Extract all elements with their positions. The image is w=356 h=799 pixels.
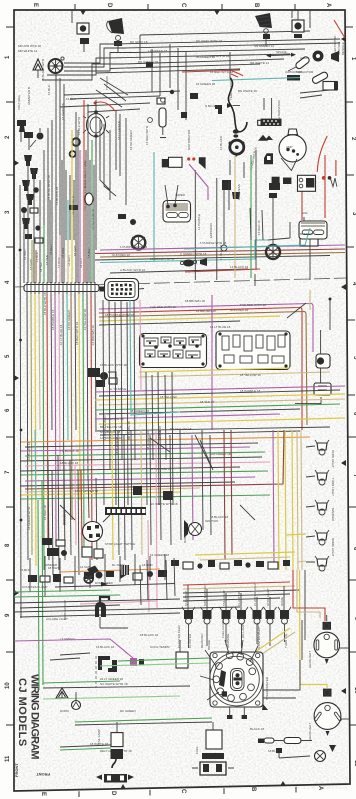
- ignition module: [323, 82, 337, 91]
- turn signal flasher box: [163, 201, 191, 223]
- svg-text:HORN: HORN: [300, 56, 309, 60]
- svg-text:3: 3: [351, 212, 356, 216]
- wire white/green lower: [60, 745, 111, 747]
- labels lower left: [46, 617, 171, 753]
- firewall dash line: [14, 278, 346, 287]
- lamp L3: [315, 500, 329, 515]
- svg-text:18 BLACK 18: 18 BLACK 18: [210, 515, 229, 519]
- svg-text:B: B: [253, 3, 259, 8]
- svg-text:FRONT: FRONT: [36, 772, 50, 777]
- svg-text:CLUSTER LIGHT: CLUSTER LIGHT: [256, 622, 260, 646]
- wire yellow under fuse: [139, 368, 290, 372]
- svg-text:10: 10: [5, 682, 11, 689]
- svg-text:HEADLIGHT: HEADLIGHT: [308, 723, 312, 740]
- white circle junction: [221, 245, 227, 251]
- wire labels tr: [229, 56, 314, 170]
- wire: [92, 136, 100, 158]
- wire purple diag: [189, 164, 208, 200]
- capsule row: [264, 738, 274, 743]
- wire red right: [317, 136, 327, 172]
- svg-text:SN GREEN 14: SN GREEN 14: [254, 44, 274, 48]
- fusible link zigzag: [330, 178, 337, 187]
- wire black h: [14, 599, 180, 608]
- svg-text:DK GRAY W/TR 18: DK GRAY W/TR 18: [196, 39, 222, 43]
- labels bottomright: [195, 651, 312, 754]
- wire dash vertical: [95, 656, 97, 688]
- svg-text:COURTESY LAMP: COURTESY LAMP: [22, 585, 48, 589]
- lamp L4: [315, 530, 329, 545]
- svg-text:CLUSTER: CLUSTER: [237, 591, 241, 606]
- tail label: [97, 729, 101, 744]
- svg-text:BN GREEN 18: BN GREEN 18: [138, 60, 158, 64]
- wire inner verticals mid-left: [103, 300, 173, 505]
- wire pink column: [156, 430, 157, 608]
- wire green pair to M: [43, 681, 120, 683]
- svg-text:BB WHITE 18: BB WHITE 18: [127, 421, 131, 440]
- svg-text:EMISSION: EMISSION: [209, 223, 213, 238]
- label speckle A: [27, 292, 162, 530]
- pcv oval: [85, 193, 93, 205]
- lamp L5: [315, 556, 329, 571]
- wire red to socket1: [293, 570, 325, 621]
- svg-text:5: 5: [352, 356, 356, 360]
- svg-text:BEAM IND: BEAM IND: [200, 633, 204, 648]
- svg-text:5: 5: [5, 354, 11, 358]
- svg-text:GM WHITE 18: GM WHITE 18: [104, 417, 124, 421]
- labels mid: [112, 193, 314, 272]
- magenta connector: [130, 658, 137, 666]
- wire: [83, 44, 85, 52]
- wire bundle above sockets: [183, 582, 290, 585]
- alternator A1: [279, 135, 306, 162]
- bulb holes: [226, 652, 233, 659]
- label speckle C: [20, 563, 153, 589]
- wire black 585: [55, 584, 175, 588]
- svg-text:TO HORN: TO HORN: [105, 76, 109, 90]
- battery BAT: [299, 221, 327, 239]
- wire green down right: [75, 718, 212, 722]
- svg-text:A: A: [317, 786, 323, 791]
- svg-text:E: E: [32, 3, 38, 7]
- svg-text:DOME LIGHT: DOME LIGHT: [331, 538, 335, 557]
- wire green h1: [14, 590, 110, 592]
- wire purple bundle1: [99, 303, 313, 352]
- harness bundle top: [115, 39, 340, 44]
- svg-text:16 LT BLUE 18: 16 LT BLUE 18: [59, 324, 63, 345]
- svg-text:16 RED W/TR 16: 16 RED W/TR 16: [210, 70, 234, 74]
- wire left column verticals: [24, 163, 40, 283]
- wiper switch box WS: [105, 279, 139, 301]
- pointer line: [103, 435, 212, 522]
- labels bundle2: [110, 387, 261, 413]
- wire tan diagonals to cluster: [262, 632, 295, 654]
- wire black bundle1: [99, 321, 240, 325]
- wire: [71, 10, 73, 23]
- wire vertical drops from bundle: [140, 35, 186, 120]
- sender cluster: [222, 180, 231, 190]
- svg-text:18 PURPLE 18: 18 PURPLE 18: [240, 389, 261, 393]
- headlight socket 1: [323, 622, 332, 630]
- wire band horizontals: [95, 427, 330, 431]
- wire cyan vertical: [153, 152, 155, 262]
- svg-text:D: D: [106, 3, 112, 8]
- svg-text:6: 6: [5, 408, 11, 412]
- svg-text:MR WHITE 14: MR WHITE 14: [18, 49, 38, 53]
- wire stubs row: [30, 554, 165, 597]
- cap ovals: [233, 129, 239, 133]
- label speckle B horizontal: [45, 325, 261, 567]
- wire purple h: [14, 639, 133, 658]
- svg-text:16 BLACK 18: 16 BLACK 18: [27, 441, 31, 460]
- vertical harness to bulkhead: [56, 74, 96, 283]
- ignition switch IGN: [83, 522, 103, 542]
- svg-text:A / PURPLE: A / PURPLE: [110, 387, 126, 391]
- arrow marker: [227, 103, 233, 108]
- svg-text:7: 7: [5, 470, 11, 474]
- svg-text:14 BLACK 18: 14 BLACK 18: [230, 265, 249, 269]
- svg-text:2: 2: [350, 137, 356, 141]
- cluster pointer lines: [200, 640, 258, 700]
- starter relay: [298, 175, 316, 191]
- wire yellow bends to lamps: [286, 534, 306, 535]
- rotated label column right: [333, 35, 345, 55]
- small box right: [300, 238, 318, 246]
- bulkhead connector BH: [24, 285, 99, 292]
- socket S7: [278, 607, 291, 624]
- bracket L2: [108, 660, 117, 672]
- starter solenoid S2: [183, 260, 194, 267]
- svg-text:VOLT REG: VOLT REG: [17, 94, 21, 110]
- wire colored drops to bulkhead: [31, 240, 33, 283]
- svg-text:18 TAN 18: 18 TAN 18: [200, 400, 214, 404]
- wire stub: [100, 617, 128, 628]
- dark component r1: [133, 486, 142, 495]
- svg-text:16 BLK: 16 BLK: [47, 85, 51, 95]
- svg-text:16 YELLOW 18: 16 YELLOW 18: [83, 309, 87, 330]
- svg-text:BLACK 18: BLACK 18: [250, 727, 264, 731]
- wire cyan horiz2: [184, 228, 310, 249]
- column connector bar: [105, 507, 146, 515]
- ignition connector cluster: [88, 368, 100, 377]
- svg-text:CLUSTER LIGHT: CLUSTER LIGHT: [253, 582, 257, 606]
- wire yellow vertical: [71, 130, 73, 283]
- wire red dm: [185, 269, 260, 272]
- svg-text:8: 8: [352, 547, 356, 551]
- wire stairs mid: [100, 120, 116, 200]
- wire tan right: [297, 570, 320, 618]
- svg-text:18 YELLOW 16: 18 YELLOW 16: [240, 373, 261, 377]
- svg-text:14 RED 18: 14 RED 18: [43, 505, 47, 520]
- svg-text:3: 3: [5, 210, 11, 214]
- dimmer bracket: [87, 566, 99, 576]
- wire black vertical r: [329, 300, 331, 330]
- headlight connector HL1: [314, 632, 340, 658]
- buzzer boxes: [82, 547, 92, 557]
- svg-text:BN WHITE 18: BN WHITE 18: [238, 89, 257, 93]
- svg-text:THE RED W/TR 18: THE RED W/TR 18: [240, 303, 266, 307]
- svg-text:GUN RED 18: GUN RED 18: [112, 253, 130, 257]
- dark component r2: [163, 491, 173, 500]
- svg-text:16 GREEN 18: 16 GREEN 18: [196, 82, 215, 86]
- svg-text:1 PURPLE W/TR 18: 1 PURPLE W/TR 18: [120, 245, 148, 249]
- svg-text:TAIL LIGHT: TAIL LIGHT: [222, 590, 226, 606]
- wire loom verticals below bulkhead: [27, 294, 28, 560]
- wire verticals topright: [266, 10, 310, 46]
- wire tail right: [268, 222, 290, 240]
- svg-text:18 BROWN 18: 18 BROWN 18: [185, 299, 205, 303]
- wire right verticals: [224, 430, 225, 560]
- svg-text:14 LT BLUE 18: 14 LT BLUE 18: [210, 325, 231, 329]
- wire teal mid: [130, 300, 180, 415]
- socket S5: [251, 607, 264, 624]
- svg-text:14 BLK RD: 14 BLK RD: [219, 244, 223, 260]
- starter parts row: [272, 177, 280, 184]
- cluster bottom stems: [230, 707, 245, 715]
- wire purple run: [100, 245, 345, 250]
- svg-text:TR BLACK 18: TR BLACK 18: [60, 449, 79, 453]
- capacitor C1: [295, 56, 311, 70]
- distributor D1: [230, 140, 244, 154]
- svg-text:18 PURPLE 18: 18 PURPLE 18: [51, 309, 55, 330]
- lamp L2: [315, 470, 329, 485]
- svg-text:COOL TEMPR: COOL TEMPR: [150, 645, 171, 649]
- fuel capsule: [159, 108, 166, 127]
- wire tan short r: [309, 290, 311, 310]
- svg-text:1 PURPLE WTR 18: 1 PURPLE WTR 18: [200, 241, 227, 245]
- svg-text:FRONT: FRONT: [14, 763, 19, 777]
- svg-text:THE RED W/TR 18: THE RED W/TR 18: [150, 305, 176, 309]
- wire green pair to cluster: [118, 658, 210, 661]
- buzzer: [80, 38, 89, 44]
- horseshoe U: [95, 602, 106, 617]
- arrow HL1: [325, 659, 329, 664]
- svg-text:18 YELLOW: 18 YELLOW: [160, 395, 177, 399]
- sender symbols mid: [130, 219, 136, 225]
- alternator connector: [261, 119, 282, 126]
- small rect pair: [258, 120, 266, 125]
- svg-text:LA GREEN 18: LA GREEN 18: [148, 49, 168, 53]
- oil sender: [37, 133, 44, 140]
- wire: [117, 40, 119, 52]
- svg-text:TURN SIG: TURN SIG: [284, 633, 288, 648]
- socket S6: [264, 607, 277, 624]
- arrow HL2: [326, 731, 330, 736]
- ignition capsule: [311, 71, 328, 84]
- svg-text:18 RED: 18 RED: [142, 563, 153, 567]
- wire verticals center: [195, 170, 217, 280]
- svg-text:OIL LAMP: OIL LAMP: [241, 624, 245, 638]
- cluster circle inner: [213, 656, 259, 702]
- socket labels: [184, 582, 284, 606]
- ignition circle D3: [266, 245, 280, 259]
- svg-text:BATTERY: BATTERY: [300, 232, 314, 236]
- warning triangle: [56, 688, 68, 698]
- svg-text:DK GRAY 18: DK GRAY 18: [130, 40, 148, 44]
- top/bottom margin separators: [75, 4, 296, 797]
- svg-text:18 LT GREEN 18: 18 LT GREEN 18: [75, 489, 98, 493]
- svg-text:DK GREEN: DK GREEN: [120, 709, 136, 713]
- svg-text:14 PURPLE: 14 PURPLE: [197, 214, 201, 230]
- svg-text:TEMPERATURE: TEMPERATURE: [229, 78, 233, 100]
- svg-text:18 DK GREEN: 18 DK GREEN: [129, 130, 133, 150]
- left column parts y150-240: [21, 155, 78, 243]
- A bracket parts: [258, 135, 273, 141]
- svg-text:7: 7: [352, 474, 356, 478]
- svg-text:8: 8: [5, 543, 11, 547]
- extra thin wires: [140, 558, 175, 605]
- svg-text:18 GREEN W/TR: 18 GREEN W/TR: [27, 506, 31, 530]
- svg-text:18 BROWN 18: 18 BROWN 18: [91, 325, 95, 345]
- wire pink mid: [140, 300, 141, 392]
- socket stems: [188, 585, 284, 610]
- instrument cluster plate: [210, 652, 263, 707]
- svg-text:14 RED 16: 14 RED 16: [257, 220, 261, 235]
- left connector stack: [42, 538, 52, 545]
- hazard flasher: [314, 383, 331, 395]
- wire black verticals right: [302, 570, 305, 660]
- svg-text:9: 9: [5, 613, 11, 617]
- wire horiz runs mid-top: [60, 91, 180, 112]
- svg-text:FUEL: FUEL: [195, 746, 199, 754]
- dark ring B: [70, 151, 76, 157]
- svg-text:B: B: [250, 787, 256, 792]
- svg-text:18 BLACK 16: 18 BLACK 16: [140, 633, 159, 637]
- svg-text:SPLICE: SPLICE: [276, 50, 287, 54]
- radio speaker: [189, 523, 202, 536]
- headlight socket 2: [323, 689, 332, 697]
- svg-text:TURN LIGHT: TURN LIGHT: [331, 478, 335, 496]
- svg-text:AMMETER B: AMMETER B: [27, 87, 31, 105]
- svg-text:DOME: DOME: [280, 597, 284, 606]
- wire: [37, 70, 39, 78]
- capacitor dark block: [287, 75, 300, 81]
- rotated harness labels: [47, 161, 95, 230]
- svg-text:16 BLACK 18: 16 BLACK 18: [96, 645, 115, 649]
- svg-text:18 BLACK 18: 18 BLACK 18: [115, 436, 119, 455]
- svg-text:18 BLK W/TR 18: 18 BLK W/TR 18: [43, 292, 47, 315]
- svg-text:18 YEL: 18 YEL: [39, 262, 43, 272]
- voltage regulator VR: [87, 114, 106, 137]
- wire diag: [96, 78, 128, 107]
- svg-text:HEADLIGHT: HEADLIGHT: [308, 651, 312, 668]
- svg-text:18 BROWN W/TR: 18 BROWN W/TR: [150, 257, 175, 261]
- corner screws: [213, 653, 217, 657]
- elbow connector: [215, 105, 222, 114]
- horn H2: [255, 13, 272, 28]
- wire brown bundle1: [99, 311, 307, 425]
- arrow bottom right of cluster: [262, 704, 268, 710]
- lamp L1: [315, 440, 329, 455]
- oil sender B: [313, 51, 324, 62]
- svg-text:11: 11: [5, 755, 11, 762]
- svg-text:DISTRIBUTOR: DISTRIBUTOR: [187, 129, 191, 150]
- svg-text:MR ATR WTR 18: MR ATR WTR 18: [18, 44, 41, 48]
- coolant indicator: [33, 59, 43, 70]
- coil assembly: [169, 157, 183, 167]
- socket lower labels: [188, 626, 288, 650]
- wire left verticals lower: [35, 430, 36, 500]
- labels band: [60, 425, 231, 465]
- tail lamp assembly TL1: [111, 733, 123, 747]
- svg-text:STOP LIGHT: STOP LIGHT: [266, 588, 270, 606]
- wire red diag: [231, 70, 243, 77]
- pointer diagonals: [60, 438, 255, 520]
- svg-text:18 BLACK 18: 18 BLACK 18: [60, 461, 79, 465]
- horn bracket: [114, 41, 122, 46]
- svg-text:OIL PRESS: OIL PRESS: [237, 184, 241, 200]
- cluster circle outer: [210, 653, 263, 706]
- svg-text:SOL: SOL: [302, 211, 308, 215]
- wire bundle2: [95, 386, 345, 392]
- wire red battery feed: [301, 180, 303, 220]
- wire red bundle1: [99, 307, 302, 430]
- motor circle M: [72, 701, 81, 710]
- wire yellow bundle1: [99, 316, 280, 321]
- wire box loop: [263, 660, 300, 698]
- wire stubs to lamps: [306, 446, 315, 562]
- wire green h2: [14, 595, 120, 597]
- dark ring A: [72, 138, 80, 146]
- svg-text:C: C: [180, 3, 186, 8]
- terminal dots: [322, 176, 326, 180]
- lamp labels: [331, 450, 335, 557]
- socket S2: [201, 607, 214, 624]
- svg-text:6: 6: [352, 412, 356, 416]
- svg-text:18 TAN 18: 18 TAN 18: [158, 426, 162, 440]
- svg-text:BB YELLOW 18: BB YELLOW 18: [170, 427, 192, 431]
- svg-text:16 BLK: 16 BLK: [20, 568, 30, 572]
- svg-text:GUN RED 18: GUN RED 18: [230, 308, 248, 312]
- wire teal run2: [100, 240, 268, 263]
- svg-text:SIDE MARKER: SIDE MARKER: [203, 584, 207, 606]
- center window: [231, 669, 245, 691]
- wire teal run: [212, 78, 300, 81]
- svg-text:18 GREEN 18: 18 GREEN 18: [146, 431, 150, 450]
- wire orange lower: [60, 569, 160, 572]
- svg-text:FUEL GAUGE: FUEL GAUGE: [221, 619, 225, 638]
- svg-text:N BLUE 16: N BLUE 16: [205, 104, 220, 108]
- svg-text:CJ MODELS: CJ MODELS: [16, 678, 28, 747]
- bracket L1: [98, 656, 110, 670]
- wire tan vertical2: [234, 155, 236, 278]
- horn relay: [316, 354, 330, 368]
- svg-text:18 DK GREEN: 18 DK GREEN: [67, 310, 71, 330]
- svg-text:18 BROWN 18: 18 BROWN 18: [196, 309, 216, 313]
- svg-text:18 GRAY 18: 18 GRAY 18: [61, 103, 65, 120]
- svg-text:E: E: [40, 792, 46, 796]
- svg-text:IGNITION: IGNITION: [205, 519, 218, 523]
- title WIRING DIAGRAM CJ MODELS: [16, 674, 41, 759]
- speaker label: [183, 519, 218, 543]
- distributor D2: [132, 236, 146, 250]
- svg-text:BRAKE: BRAKE: [207, 640, 211, 650]
- svg-text:STOP LIGHT SWITCH: STOP LIGHT SWITCH: [105, 542, 135, 546]
- splice arrows: [271, 54, 291, 57]
- svg-text:16 RED W/TR: 16 RED W/TR: [145, 125, 149, 145]
- svg-text:2: 2: [5, 135, 11, 139]
- key glyphs: [219, 670, 226, 687]
- wire yellow bend to HL2: [300, 570, 328, 688]
- svg-text:16 GREEN 18: 16 GREEN 18: [150, 553, 169, 557]
- svg-text:CLUSTER: CLUSTER: [188, 633, 192, 648]
- svg-text:PARK LIGHT: PARK LIGHT: [331, 450, 335, 468]
- svg-text:MARKER: MARKER: [331, 508, 335, 522]
- svg-text:RADIO: RADIO: [183, 533, 187, 543]
- cool lamp box: [176, 652, 188, 668]
- wire lower horizontals extension: [14, 607, 240, 617]
- sender bracket: [331, 51, 339, 62]
- left small parts: [17, 120, 26, 126]
